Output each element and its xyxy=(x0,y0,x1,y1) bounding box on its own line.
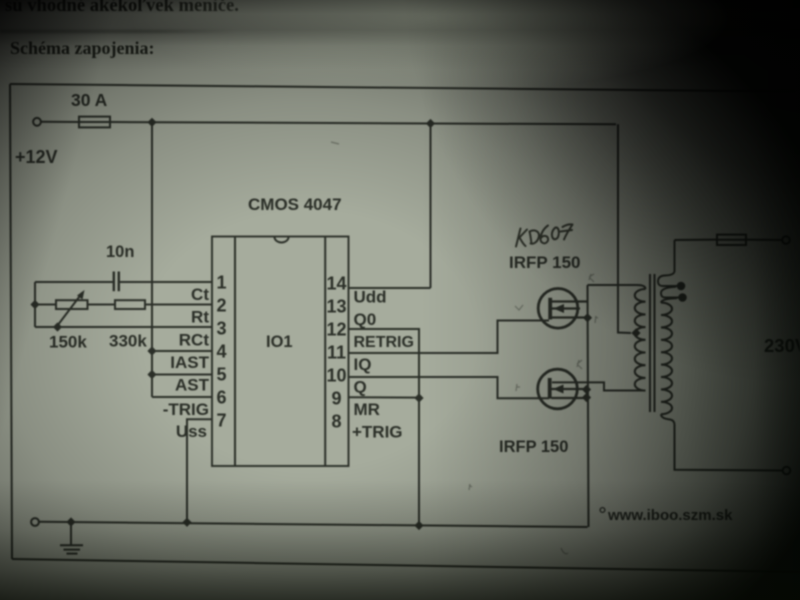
svg-text:-TRIG: -TRIG xyxy=(163,400,209,419)
svg-text:Rt: Rt xyxy=(191,308,209,327)
svg-text:3: 3 xyxy=(216,319,226,339)
svg-text:4: 4 xyxy=(216,342,226,362)
svg-text:6: 6 xyxy=(216,388,226,408)
svg-text:9: 9 xyxy=(331,389,341,409)
svg-text:IRFP 150: IRFP 150 xyxy=(499,438,568,456)
svg-text:www.iboo.szm.sk: www.iboo.szm.sk xyxy=(607,507,733,524)
svg-text:Uss: Uss xyxy=(176,422,207,441)
svg-text:Udd: Udd xyxy=(354,288,387,307)
svg-text:10n: 10n xyxy=(106,243,134,261)
svg-text:12: 12 xyxy=(326,320,346,340)
svg-text:CMOS 4047: CMOS 4047 xyxy=(248,195,342,214)
svg-text:230V: 230V xyxy=(764,335,800,356)
svg-text:Q0: Q0 xyxy=(354,310,377,329)
svg-text:IQ: IQ xyxy=(354,355,372,374)
svg-text:13: 13 xyxy=(326,297,346,317)
svg-text:330k: 330k xyxy=(109,332,147,351)
svg-text:8: 8 xyxy=(331,412,341,432)
svg-text:+TRIG: +TRIG xyxy=(352,423,403,442)
svg-text:11: 11 xyxy=(327,343,346,363)
svg-text:150k: 150k xyxy=(49,333,87,352)
svg-text:Ct: Ct xyxy=(191,285,209,304)
svg-text:RCt: RCt xyxy=(179,331,210,350)
svg-text:14: 14 xyxy=(326,274,346,294)
svg-text:RETRIG: RETRIG xyxy=(354,334,414,351)
svg-text:7: 7 xyxy=(216,411,226,431)
svg-text:2: 2 xyxy=(216,296,226,316)
svg-text:+12V: +12V xyxy=(15,147,58,167)
svg-text:IRFP 150: IRFP 150 xyxy=(509,253,581,272)
svg-text:1: 1 xyxy=(216,273,226,293)
svg-text:5: 5 xyxy=(216,365,226,385)
svg-text:IO1: IO1 xyxy=(266,333,293,351)
svg-text:MR: MR xyxy=(354,400,380,419)
svg-text:AST: AST xyxy=(175,376,210,395)
svg-text:10: 10 xyxy=(326,366,346,386)
svg-text:30 A: 30 A xyxy=(71,90,108,110)
svg-text:IAST: IAST xyxy=(170,353,209,372)
svg-text:Q: Q xyxy=(354,378,367,397)
